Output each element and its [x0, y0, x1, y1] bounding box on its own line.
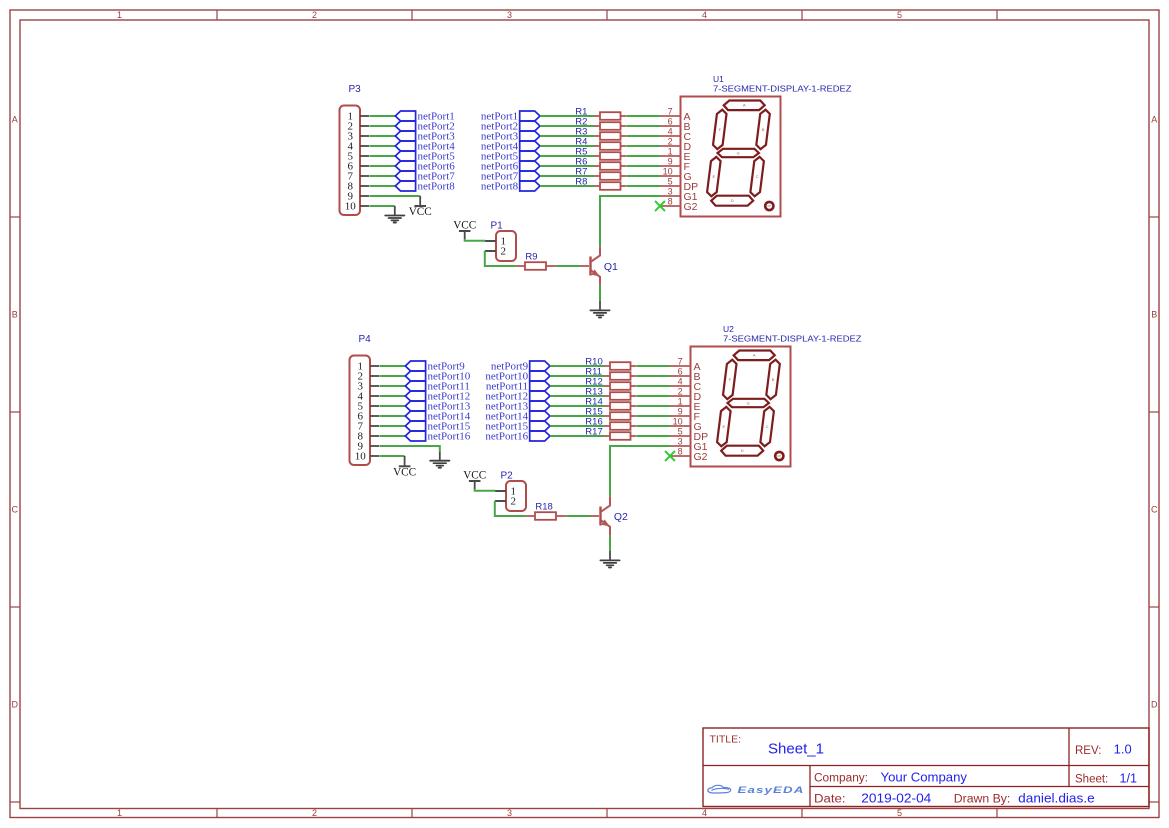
wire VCC to P2 pin 1	[474, 481, 476, 489]
wire P3 pin 3	[370, 135, 396, 137]
wire netPort2 to R2	[540, 125, 595, 127]
net flag netPort9 (mid)	[491, 361, 550, 373]
svg-text:daniel.dias.e: daniel.dias.e	[1018, 792, 1095, 806]
svg-text:2: 2	[668, 136, 673, 146]
wire netPort1 to R1	[540, 115, 595, 117]
wire P4 pin 10 to VCC	[380, 455, 405, 457]
wire P3 pin 6	[370, 165, 396, 167]
transistor Q1	[580, 246, 618, 285]
net flag netPort15 (mid)	[485, 421, 550, 433]
power flag VCC (P4 pin 10)	[393, 466, 416, 478]
svg-text:2: 2	[678, 386, 683, 396]
svg-text:7: 7	[678, 356, 683, 366]
wire R2 to U1 pin	[626, 125, 660, 127]
wire R18 to Q2 base	[566, 515, 590, 517]
resistor R11	[585, 367, 636, 380]
svg-text:5: 5	[897, 808, 902, 818]
svg-text:netPort16: netPort16	[428, 431, 471, 443]
wire P4 pin 9 to GND	[380, 446, 440, 451]
svg-text:10: 10	[355, 450, 367, 462]
wire R16 to U2 pin	[636, 425, 670, 427]
svg-text:VCC: VCC	[453, 219, 476, 231]
svg-text:7-SEGMENT-DISPLAY-1-REDEZ: 7-SEGMENT-DISPLAY-1-REDEZ	[713, 83, 852, 93]
svg-text:3: 3	[678, 436, 683, 446]
resistor R3	[575, 127, 626, 140]
resistor R1	[575, 107, 626, 120]
svg-text:Q1: Q1	[604, 261, 618, 273]
svg-text:3: 3	[668, 186, 673, 196]
wire P2 pin 2 to R18	[495, 500, 506, 502]
wire P4 pin 7	[380, 425, 406, 427]
connector P4	[350, 334, 380, 465]
wire P4 pin 8	[380, 435, 406, 437]
net flag netPort4 (mid)	[481, 141, 540, 153]
wire R15 to U2 pin	[636, 415, 670, 417]
wire netPort8 to R8	[540, 185, 595, 187]
wire P3 pin 8	[370, 185, 396, 187]
svg-text:A: A	[743, 103, 746, 108]
svg-text:4: 4	[702, 10, 707, 20]
ground (Q2 emitter)	[600, 560, 619, 567]
wire R7 to U1 pin	[626, 175, 660, 177]
resistor R15	[585, 407, 636, 420]
svg-text:C: C	[766, 424, 769, 429]
svg-text:Sheet_1: Sheet_1	[768, 741, 824, 758]
net flag netPort7 (left)	[395, 171, 455, 183]
wire R3 to U1 pin	[626, 135, 660, 137]
wire P3 pin 9 to VCC	[370, 195, 420, 197]
wire netPort13 to R14	[550, 405, 605, 407]
wire netPort3 to R3	[540, 135, 595, 137]
net flag netPort5 (left)	[395, 151, 455, 163]
EasyEDA logo	[708, 785, 805, 795]
svg-text:6: 6	[678, 366, 683, 376]
net flag netPort15 (left)	[405, 421, 470, 433]
net flag netPort14 (mid)	[485, 411, 550, 423]
wire R5 to U1 pin	[626, 155, 660, 157]
svg-text:10: 10	[663, 166, 673, 176]
net flag netPort6 (left)	[395, 161, 455, 173]
connector P3	[340, 84, 370, 215]
svg-text:5: 5	[678, 426, 683, 436]
svg-text:B: B	[12, 310, 18, 320]
net flag netPort12 (left)	[405, 391, 470, 403]
svg-text:P3: P3	[349, 84, 362, 95]
net flag netPort16 (mid)	[485, 431, 550, 443]
net flag netPort3 (mid)	[481, 131, 540, 143]
wire R11 to U2 pin	[636, 375, 670, 377]
svg-text:2: 2	[312, 10, 317, 20]
svg-text:DP: DP	[767, 204, 771, 208]
power flag VCC (P1)	[453, 219, 476, 231]
wire netPort7 to R7	[540, 175, 595, 177]
connector P2	[495, 471, 526, 511]
svg-text:1: 1	[678, 396, 683, 406]
wire P4 pin 6	[380, 415, 406, 417]
svg-text:1: 1	[117, 808, 122, 818]
wire P3 pin 7	[370, 175, 396, 177]
wire R17 to U2 pin	[636, 435, 670, 437]
wire netPort15 to R16	[550, 425, 605, 427]
wire netPort16 to R17	[550, 435, 605, 437]
wire P4 pin 4	[380, 395, 406, 397]
wire netPort11 to R12	[550, 385, 605, 387]
svg-text:netPort16: netPort16	[485, 431, 528, 443]
svg-text:R17: R17	[585, 427, 602, 438]
svg-text:VCC: VCC	[393, 466, 416, 478]
svg-text:Date:: Date:	[814, 794, 846, 806]
wire P4 pin 5	[380, 405, 406, 407]
svg-text:5: 5	[668, 176, 673, 186]
svg-text:VCC: VCC	[463, 469, 486, 481]
7-segment display U2	[670, 324, 862, 467]
net flag netPort3 (left)	[395, 131, 455, 143]
svg-text:netPort8: netPort8	[418, 181, 456, 193]
svg-text:Company:: Company:	[814, 772, 868, 784]
svg-text:2: 2	[312, 808, 317, 818]
net flag netPort1 (left)	[395, 111, 454, 123]
svg-text:Q2: Q2	[614, 511, 628, 523]
resistor R4	[575, 137, 626, 150]
svg-text:Your Company: Your Company	[881, 770, 968, 784]
wire R6 to U1 pin	[626, 165, 660, 167]
power flag VCC (P3 pin 9)	[409, 206, 432, 218]
svg-text:A: A	[12, 115, 18, 125]
resistor R14	[585, 397, 636, 410]
wire U1 G1 to Q1 collector	[600, 196, 660, 246]
wire R12 to U2 pin	[636, 385, 670, 387]
power flag VCC (P2)	[463, 469, 486, 481]
resistor R12	[585, 377, 636, 390]
net flag netPort2 (left)	[395, 121, 454, 133]
net flag netPort13 (left)	[405, 401, 470, 413]
wire U2 G1 to Q2 collector	[610, 446, 670, 496]
svg-text:G2: G2	[694, 451, 708, 463]
svg-text:B: B	[762, 127, 765, 132]
net flag netPort2 (mid)	[481, 121, 540, 133]
net flag netPort7 (mid)	[481, 171, 540, 183]
wire netPort10 to R11	[550, 375, 605, 377]
no-connect X on U1 G2	[656, 202, 665, 211]
svg-text:VCC: VCC	[409, 206, 432, 218]
wire R14 to U2 pin	[636, 405, 670, 407]
svg-text:C: C	[12, 505, 19, 515]
7-segment display U1	[660, 74, 852, 217]
wire netPort4 to R4	[540, 145, 595, 147]
svg-text:A: A	[1151, 115, 1157, 125]
resistor R6	[575, 157, 626, 170]
resistor R17	[585, 427, 636, 440]
svg-text:3: 3	[507, 808, 512, 818]
resistor R16	[585, 417, 636, 430]
svg-text:4: 4	[668, 126, 673, 136]
svg-text:7-SEGMENT-DISPLAY-1-REDEZ: 7-SEGMENT-DISPLAY-1-REDEZ	[723, 333, 862, 343]
svg-text:10: 10	[345, 200, 357, 212]
svg-text:R8: R8	[575, 177, 587, 188]
resistor R2	[575, 117, 626, 130]
svg-text:8: 8	[678, 446, 683, 456]
wire R1 to U1 pin	[626, 115, 660, 117]
svg-text:C: C	[756, 174, 759, 179]
svg-text:3: 3	[507, 10, 512, 20]
wire P4 pin 2	[380, 375, 406, 377]
svg-text:2019-02-04: 2019-02-04	[861, 792, 931, 806]
svg-text:1: 1	[668, 146, 673, 156]
no-connect X on U2 G2	[666, 452, 675, 461]
wire P3 pin 4	[370, 145, 396, 147]
net flag netPort10 (left)	[405, 371, 470, 383]
svg-text:G2: G2	[684, 201, 698, 213]
wire P3 pin 1	[370, 115, 396, 117]
svg-text:R18: R18	[535, 501, 552, 512]
svg-text:B: B	[772, 377, 775, 382]
title block	[703, 728, 1149, 807]
svg-text:1.0: 1.0	[1114, 742, 1132, 756]
wire netPort14 to R15	[550, 415, 605, 417]
wire Q1 emitter to GND	[599, 286, 601, 301]
svg-text:1: 1	[117, 10, 122, 20]
svg-text:7: 7	[668, 106, 673, 116]
svg-text:2: 2	[510, 496, 516, 508]
net flag netPort8 (mid)	[481, 181, 540, 193]
svg-text:A: A	[753, 353, 756, 358]
wire VCC to P1 pin 1	[464, 231, 466, 239]
svg-text:C: C	[1151, 505, 1158, 515]
svg-text:6: 6	[668, 116, 673, 126]
svg-text:8: 8	[668, 196, 673, 206]
svg-text:Sheet:: Sheet:	[1075, 774, 1108, 786]
svg-text:REV:: REV:	[1075, 745, 1101, 757]
svg-text:P2: P2	[501, 471, 514, 482]
resistor R13	[585, 387, 636, 400]
svg-text:9: 9	[668, 156, 673, 166]
svg-text:4: 4	[702, 808, 707, 818]
net flag netPort1 (mid)	[481, 111, 540, 123]
svg-text:B: B	[1151, 310, 1157, 320]
wire R9 to Q1 base	[556, 265, 580, 267]
wire P3 pin 5	[370, 155, 396, 157]
svg-text:P4: P4	[359, 334, 372, 345]
wire P3 pin 10 to GND	[370, 205, 395, 207]
net flag netPort4 (left)	[395, 141, 455, 153]
net flag netPort9 (left)	[405, 361, 465, 373]
svg-text:G: G	[747, 400, 750, 405]
wire R10 to U2 pin	[636, 365, 670, 367]
ground (Q1 emitter)	[590, 310, 609, 317]
svg-text:5: 5	[897, 10, 902, 20]
wire P3 pin 2	[370, 125, 396, 127]
net flag netPort14 (left)	[405, 411, 470, 423]
svg-text:E: E	[722, 424, 725, 429]
svg-text:netPort8: netPort8	[481, 181, 519, 193]
svg-text:D: D	[731, 198, 734, 203]
resistor R8	[575, 177, 626, 190]
net flag netPort12 (mid)	[485, 391, 550, 403]
resistor R10	[585, 357, 636, 370]
svg-text:G: G	[737, 150, 740, 155]
wire Q2 emitter to GND	[609, 536, 611, 551]
wire netPort6 to R6	[540, 165, 595, 167]
net flag netPort8 (left)	[395, 181, 455, 193]
wire P1 pin 2 to R9	[485, 250, 496, 252]
wire P4 pin 1	[380, 365, 406, 367]
net flag netPort13 (mid)	[485, 401, 550, 413]
ground (P4 pin 9)	[430, 461, 449, 468]
wire P4 pin 3	[380, 385, 406, 387]
wire R8 to U1 pin	[626, 185, 660, 187]
net flag netPort11 (left)	[405, 381, 470, 393]
transistor Q2	[590, 496, 628, 535]
svg-text:TITLE:: TITLE:	[710, 734, 742, 746]
svg-text:Drawn By:: Drawn By:	[954, 794, 1011, 806]
svg-text:D: D	[12, 700, 19, 710]
connector P1	[485, 221, 516, 261]
svg-text:DP: DP	[777, 454, 781, 458]
wire netPort12 to R13	[550, 395, 605, 397]
svg-text:1/1: 1/1	[1120, 772, 1138, 786]
svg-text:D: D	[741, 448, 744, 453]
svg-text:4: 4	[678, 376, 683, 386]
svg-text:2: 2	[500, 246, 506, 258]
net flag netPort5 (mid)	[481, 151, 540, 163]
svg-text:E: E	[712, 174, 715, 179]
resistor R5	[575, 147, 626, 160]
resistor R7	[575, 167, 626, 180]
ground (P3 pin 10)	[385, 216, 404, 223]
svg-text:P1: P1	[491, 221, 504, 232]
net flag netPort10 (mid)	[485, 371, 550, 383]
svg-text:R9: R9	[525, 251, 537, 262]
svg-text:10: 10	[673, 416, 683, 426]
svg-text:EasyEDA: EasyEDA	[738, 785, 805, 795]
svg-text:9: 9	[678, 406, 683, 416]
net flag netPort16 (left)	[405, 431, 470, 443]
wire R4 to U1 pin	[626, 145, 660, 147]
wire R13 to U2 pin	[636, 395, 670, 397]
wire netPort5 to R5	[540, 155, 595, 157]
net flag netPort6 (mid)	[481, 161, 540, 173]
net flag netPort11 (mid)	[486, 381, 550, 393]
wire netPort9 to R10	[550, 365, 605, 367]
svg-text:D: D	[1151, 700, 1158, 710]
